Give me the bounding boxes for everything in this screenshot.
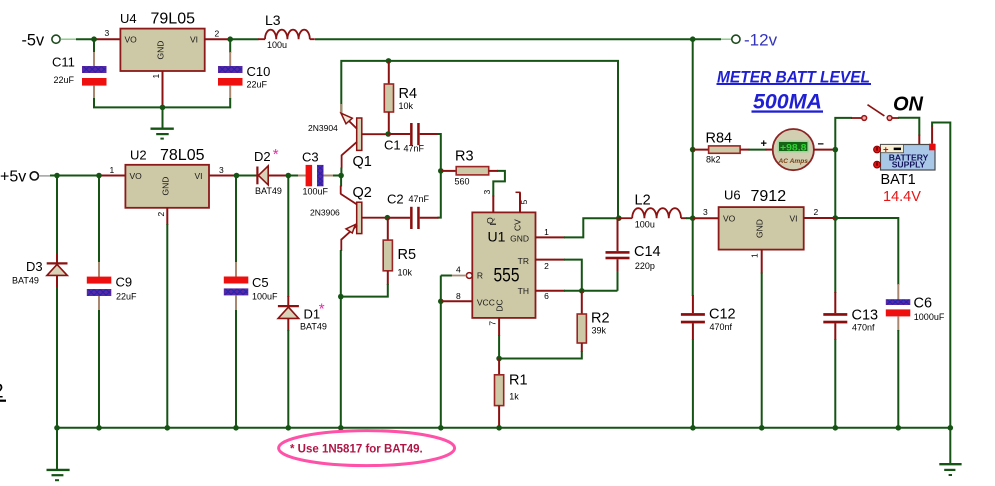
svg-text:1: 1	[750, 253, 760, 258]
wire meter to C13 column junction	[814, 149, 835, 151]
wire VCC column to bottom rail	[440, 301, 442, 428]
wire U2 pin3 to D2	[209, 165, 237, 176]
svg-text:*: *	[319, 301, 325, 318]
ground	[151, 107, 174, 138]
junction	[438, 168, 444, 174]
inductor L3 100u	[258, 12, 315, 50]
svg-text:-5v: -5v	[22, 32, 45, 50]
wire U4 GND pin1	[151, 71, 163, 107]
svg-text:220p: 220p	[635, 261, 655, 271]
svg-text:470nf: 470nf	[852, 323, 875, 333]
junction	[385, 131, 391, 137]
junction	[438, 299, 444, 305]
svg-text:5: 5	[519, 200, 529, 205]
wire battery plus pin	[918, 135, 920, 145]
wire U2 GND pin2 to bottom rail	[156, 208, 167, 428]
ground	[47, 428, 70, 480]
capacitor C10 22uF	[218, 39, 270, 99]
resistor R2 39k	[577, 291, 609, 352]
junction	[385, 215, 391, 221]
svg-text:C5: C5	[252, 275, 269, 290]
wire C13 column down	[834, 150, 836, 293]
capacitor C2 47nF	[387, 192, 439, 230]
svg-text:ON: ON	[893, 94, 924, 116]
capacitor C11 22uF	[52, 39, 107, 99]
wire U6 pin2 row to C6 column	[835, 218, 898, 285]
regulator U4 79L05	[120, 11, 205, 72]
svg-text:+98.8: +98.8	[780, 143, 807, 154]
inductor L2 100u	[619, 193, 693, 230]
svg-text:3: 3	[219, 165, 224, 175]
node -12v	[732, 31, 778, 50]
capacitor C13 470nf	[823, 292, 878, 428]
junction	[833, 215, 839, 221]
wire 555 pin4 reset	[441, 265, 472, 279]
wire 555 pin5 stub	[516, 192, 530, 212]
svg-text:100u: 100u	[635, 220, 655, 230]
regulator U6 7912	[719, 188, 804, 250]
junction	[96, 425, 102, 431]
svg-text:3: 3	[703, 207, 708, 217]
diode D1 BAT49	[278, 176, 327, 428]
svg-text:R1: R1	[509, 373, 528, 389]
svg-text:470nf: 470nf	[710, 322, 733, 332]
svg-text:R2: R2	[591, 311, 610, 327]
junction	[96, 173, 102, 179]
capacitor C1 47nF	[384, 123, 439, 154]
capacitor C6 1000uF	[886, 284, 945, 428]
wire Q1 base to junction	[340, 155, 342, 176]
junction	[386, 58, 392, 64]
svg-text:C12: C12	[709, 307, 736, 323]
svg-text:1000uF: 1000uF	[914, 312, 945, 322]
svg-text:C3: C3	[302, 150, 319, 165]
junction	[496, 425, 502, 431]
svg-text:U2: U2	[130, 148, 147, 163]
wire L3 to -12v	[315, 38, 693, 40]
junction	[690, 425, 696, 431]
svg-text:555: 555	[494, 266, 520, 287]
svg-text:GND: GND	[160, 177, 170, 196]
wire 555 pin7 DC	[488, 318, 500, 359]
wire R5 bottom to Q2 emitter column	[341, 284, 388, 297]
svg-text:6: 6	[544, 291, 549, 301]
junction	[579, 288, 585, 294]
capacitor C9 22uF	[87, 176, 137, 428]
svg-text:-12v: -12v	[744, 31, 778, 50]
junction	[896, 425, 902, 431]
note ellipse Use 1N5817 for BAT49	[279, 431, 455, 466]
junction	[759, 425, 765, 431]
svg-text:C13: C13	[852, 308, 879, 324]
wire junction to Q2 base	[340, 176, 342, 195]
svg-text:DC: DC	[495, 299, 505, 311]
resistor R3 560	[441, 149, 498, 187]
svg-text:2: 2	[156, 212, 166, 217]
svg-text:3: 3	[482, 190, 492, 195]
svg-text:C2: C2	[387, 192, 404, 207]
junction	[54, 173, 60, 179]
junction	[91, 36, 97, 42]
svg-text:R84: R84	[706, 131, 733, 147]
wire U6 GND pin1 to bottom rail	[750, 250, 762, 428]
svg-text:R3: R3	[455, 149, 474, 165]
junction	[833, 147, 839, 153]
svg-text:100uF: 100uF	[252, 292, 278, 302]
wire junction to -12v terminal	[693, 38, 732, 40]
svg-text:2N3906: 2N3906	[310, 208, 340, 218]
junction	[160, 105, 166, 111]
junction	[833, 425, 839, 431]
transistor Q1 2N3904	[308, 104, 388, 170]
junction	[948, 425, 954, 431]
wire U6 pin2	[804, 207, 836, 218]
svg-text:8k2: 8k2	[706, 155, 721, 165]
svg-text:Q: Q	[485, 217, 495, 224]
svg-text:Q1: Q1	[353, 154, 372, 170]
timer U1 555	[472, 212, 535, 318]
node +5v	[0, 169, 38, 186]
junction	[338, 425, 344, 431]
svg-text:R5: R5	[398, 247, 417, 263]
wire C1 right to column	[438, 134, 441, 171]
resistor R84 8k2	[693, 131, 773, 165]
svg-text:BAT49: BAT49	[300, 322, 327, 332]
svg-text:22uF: 22uF	[54, 75, 75, 85]
diode D2 BAT49	[237, 146, 289, 196]
wire C11 to gnd junction	[94, 98, 163, 107]
svg-text:D1: D1	[304, 307, 321, 322]
junction	[338, 173, 344, 179]
wire switch to battery plus	[892, 118, 919, 136]
svg-text:1: 1	[110, 165, 115, 175]
resistor R1 1k	[495, 359, 528, 428]
svg-text:79L05: 79L05	[151, 11, 196, 28]
meter AC Amps	[761, 129, 824, 170]
svg-text:* Use 1N5817 for BAT49.: * Use 1N5817 for BAT49.	[290, 444, 423, 456]
svg-text:C14: C14	[634, 244, 661, 260]
wire U4 pin2 to C10 junction	[205, 29, 231, 40]
battery BAT1	[874, 144, 936, 205]
svg-text:22uF: 22uF	[116, 292, 137, 302]
svg-text:Q2: Q2	[353, 185, 372, 201]
svg-text:VO: VO	[125, 35, 138, 45]
wire Q2 emitter to bottom rail	[340, 239, 343, 428]
svg-text:C6: C6	[914, 296, 933, 312]
svg-text:7912: 7912	[751, 188, 787, 205]
svg-text:BAT49: BAT49	[255, 186, 282, 196]
junction	[690, 36, 696, 42]
wire 555 pin2 TR	[536, 260, 582, 291]
diode D3 BAT49	[12, 176, 68, 428]
junction	[234, 173, 240, 179]
svg-text:+: +	[761, 138, 767, 150]
svg-text:100u: 100u	[267, 40, 287, 50]
wire +5v rail	[39, 175, 126, 177]
junction	[496, 356, 502, 362]
svg-text:7: 7	[488, 321, 498, 326]
svg-text:4: 4	[456, 265, 461, 275]
svg-text:U4: U4	[120, 11, 137, 26]
wire 555 pin6 TH	[536, 291, 618, 301]
wire junction up to switch	[835, 118, 861, 150]
svg-text:VO: VO	[130, 171, 143, 181]
svg-text:L3: L3	[265, 12, 281, 28]
svg-text:R4: R4	[399, 86, 418, 102]
svg-text:SUPPLY: SUPPLY	[892, 160, 926, 170]
svg-text:C11: C11	[52, 55, 75, 70]
junction	[227, 36, 233, 42]
svg-text:GND: GND	[510, 234, 529, 244]
svg-text:2: 2	[544, 261, 549, 271]
svg-text:C1: C1	[384, 138, 401, 153]
wire -12v column	[692, 39, 694, 296]
svg-text:1: 1	[544, 227, 549, 237]
svg-text:VI: VI	[195, 171, 203, 181]
svg-text:VI: VI	[190, 35, 198, 45]
wire GND riser to L2 junction	[616, 215, 622, 221]
svg-text:GND: GND	[156, 41, 166, 60]
svg-text:U6: U6	[724, 188, 741, 203]
junction	[690, 147, 696, 153]
svg-text:VO: VO	[723, 214, 736, 224]
svg-text:2: 2	[0, 381, 4, 403]
svg-text:47nF: 47nF	[409, 194, 430, 204]
junction	[286, 425, 292, 431]
junction	[165, 425, 171, 431]
svg-text:22uF: 22uF	[247, 80, 268, 90]
wire bottom rail	[57, 427, 950, 429]
svg-text:560: 560	[455, 177, 470, 187]
svg-text:GND: GND	[755, 219, 765, 238]
svg-text:78L05: 78L05	[160, 147, 205, 164]
wire 555 pin8 VCC	[441, 291, 473, 302]
svg-text:2: 2	[215, 29, 220, 39]
svg-text:AC Amps: AC Amps	[778, 158, 809, 165]
wire pin4 bend to VCC junction	[440, 276, 442, 302]
capacitor C5 100uF	[224, 176, 278, 428]
svg-text:10k: 10k	[398, 268, 413, 278]
svg-text:U1: U1	[488, 229, 506, 245]
wire 555 pin3	[482, 190, 493, 213]
svg-text:+5v: +5v	[0, 169, 26, 186]
svg-text:14.4V: 14.4V	[883, 189, 921, 205]
capacitor C3 100uF	[288, 150, 341, 197]
svg-text:10k: 10k	[399, 101, 414, 111]
capacitor C12 470nf	[681, 295, 736, 428]
svg-text:TR: TR	[518, 256, 529, 266]
wire C10 junction to L3	[230, 38, 258, 40]
svg-text:VCC: VCC	[477, 298, 495, 308]
svg-text:2N3904: 2N3904	[308, 123, 338, 133]
svg-text:100uF: 100uF	[303, 187, 329, 197]
wire U6 pin3	[693, 207, 719, 218]
wire 555 pin1 GND	[536, 218, 619, 237]
junction	[338, 294, 344, 300]
svg-text:R: R	[477, 271, 483, 281]
junction	[286, 173, 292, 179]
switch ON	[862, 105, 892, 121]
junction	[690, 215, 696, 221]
junction	[54, 425, 60, 431]
svg-text:L2: L2	[635, 193, 651, 209]
resistor R4 10k	[384, 61, 417, 134]
svg-text:8: 8	[456, 291, 461, 301]
transistor Q2 2N3906	[310, 185, 387, 239]
junction	[233, 425, 239, 431]
resistor R5 10k	[383, 218, 416, 285]
svg-text:D3: D3	[26, 259, 43, 274]
node -5v	[22, 32, 61, 50]
svg-text:1k: 1k	[509, 392, 519, 402]
wire -5v to U4 pin3	[61, 38, 121, 40]
svg-text:VI: VI	[790, 214, 798, 224]
label page 2	[0, 381, 6, 403]
svg-text:C10: C10	[247, 64, 271, 79]
wire R2 bottom to pin7 junction	[499, 351, 582, 359]
svg-text:2: 2	[814, 207, 819, 217]
svg-text:500MA: 500MA	[753, 91, 822, 114]
wire battery minus to right column	[932, 123, 950, 428]
wire top rail	[341, 61, 618, 218]
svg-text:CV: CV	[513, 219, 523, 231]
ground	[939, 428, 961, 475]
svg-text:39k: 39k	[592, 326, 607, 336]
svg-text:BAT1: BAT1	[881, 172, 916, 188]
capacitor C14 220p	[606, 218, 661, 291]
svg-text:TH: TH	[518, 286, 529, 296]
svg-text:*: *	[273, 146, 279, 163]
wire C10 to gnd junction	[162, 98, 230, 107]
svg-text:1: 1	[151, 74, 161, 79]
svg-text:3: 3	[105, 28, 110, 38]
svg-text:D2: D2	[254, 149, 271, 164]
junction	[438, 425, 444, 431]
svg-text:47nF: 47nF	[404, 144, 425, 154]
regulator U2 78L05	[125, 147, 209, 208]
wire R3 to 555 pin3	[493, 171, 505, 197]
svg-text:C9: C9	[116, 275, 133, 290]
wire C2 right to column	[438, 172, 441, 218]
svg-text:BAT49: BAT49	[12, 276, 39, 286]
